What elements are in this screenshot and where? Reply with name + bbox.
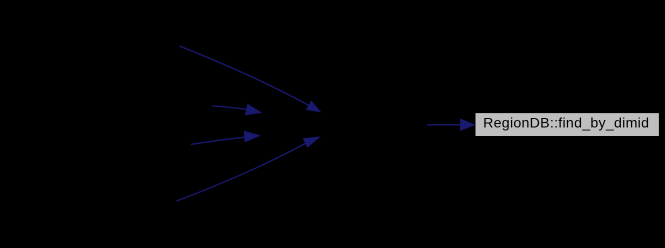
svg-text:RegionDB::find_by_dimid: RegionDB::find_by_dimid: [483, 116, 649, 132]
wire: edge B from caller 2 to middle node: [212, 106, 246, 109]
arrowhead E: [460, 119, 474, 131]
wire: edge E from middle node to RegionDB::find_by_dimid: [427, 124, 460, 126]
arrowhead A: [306, 101, 320, 112]
arrowhead D: [303, 137, 320, 147]
wire: edge D from caller 4 (bottom) to middle node: [176, 143, 305, 201]
node RegionDB::find_by_dimid (current node, grey): [475, 113, 659, 137]
arrowhead B: [245, 104, 261, 115]
wire: edge A from caller 1 (top) to middle node: [180, 46, 309, 105]
wire: edge C from caller 3 to middle node: [191, 137, 245, 144]
arrowhead C: [244, 131, 260, 142]
